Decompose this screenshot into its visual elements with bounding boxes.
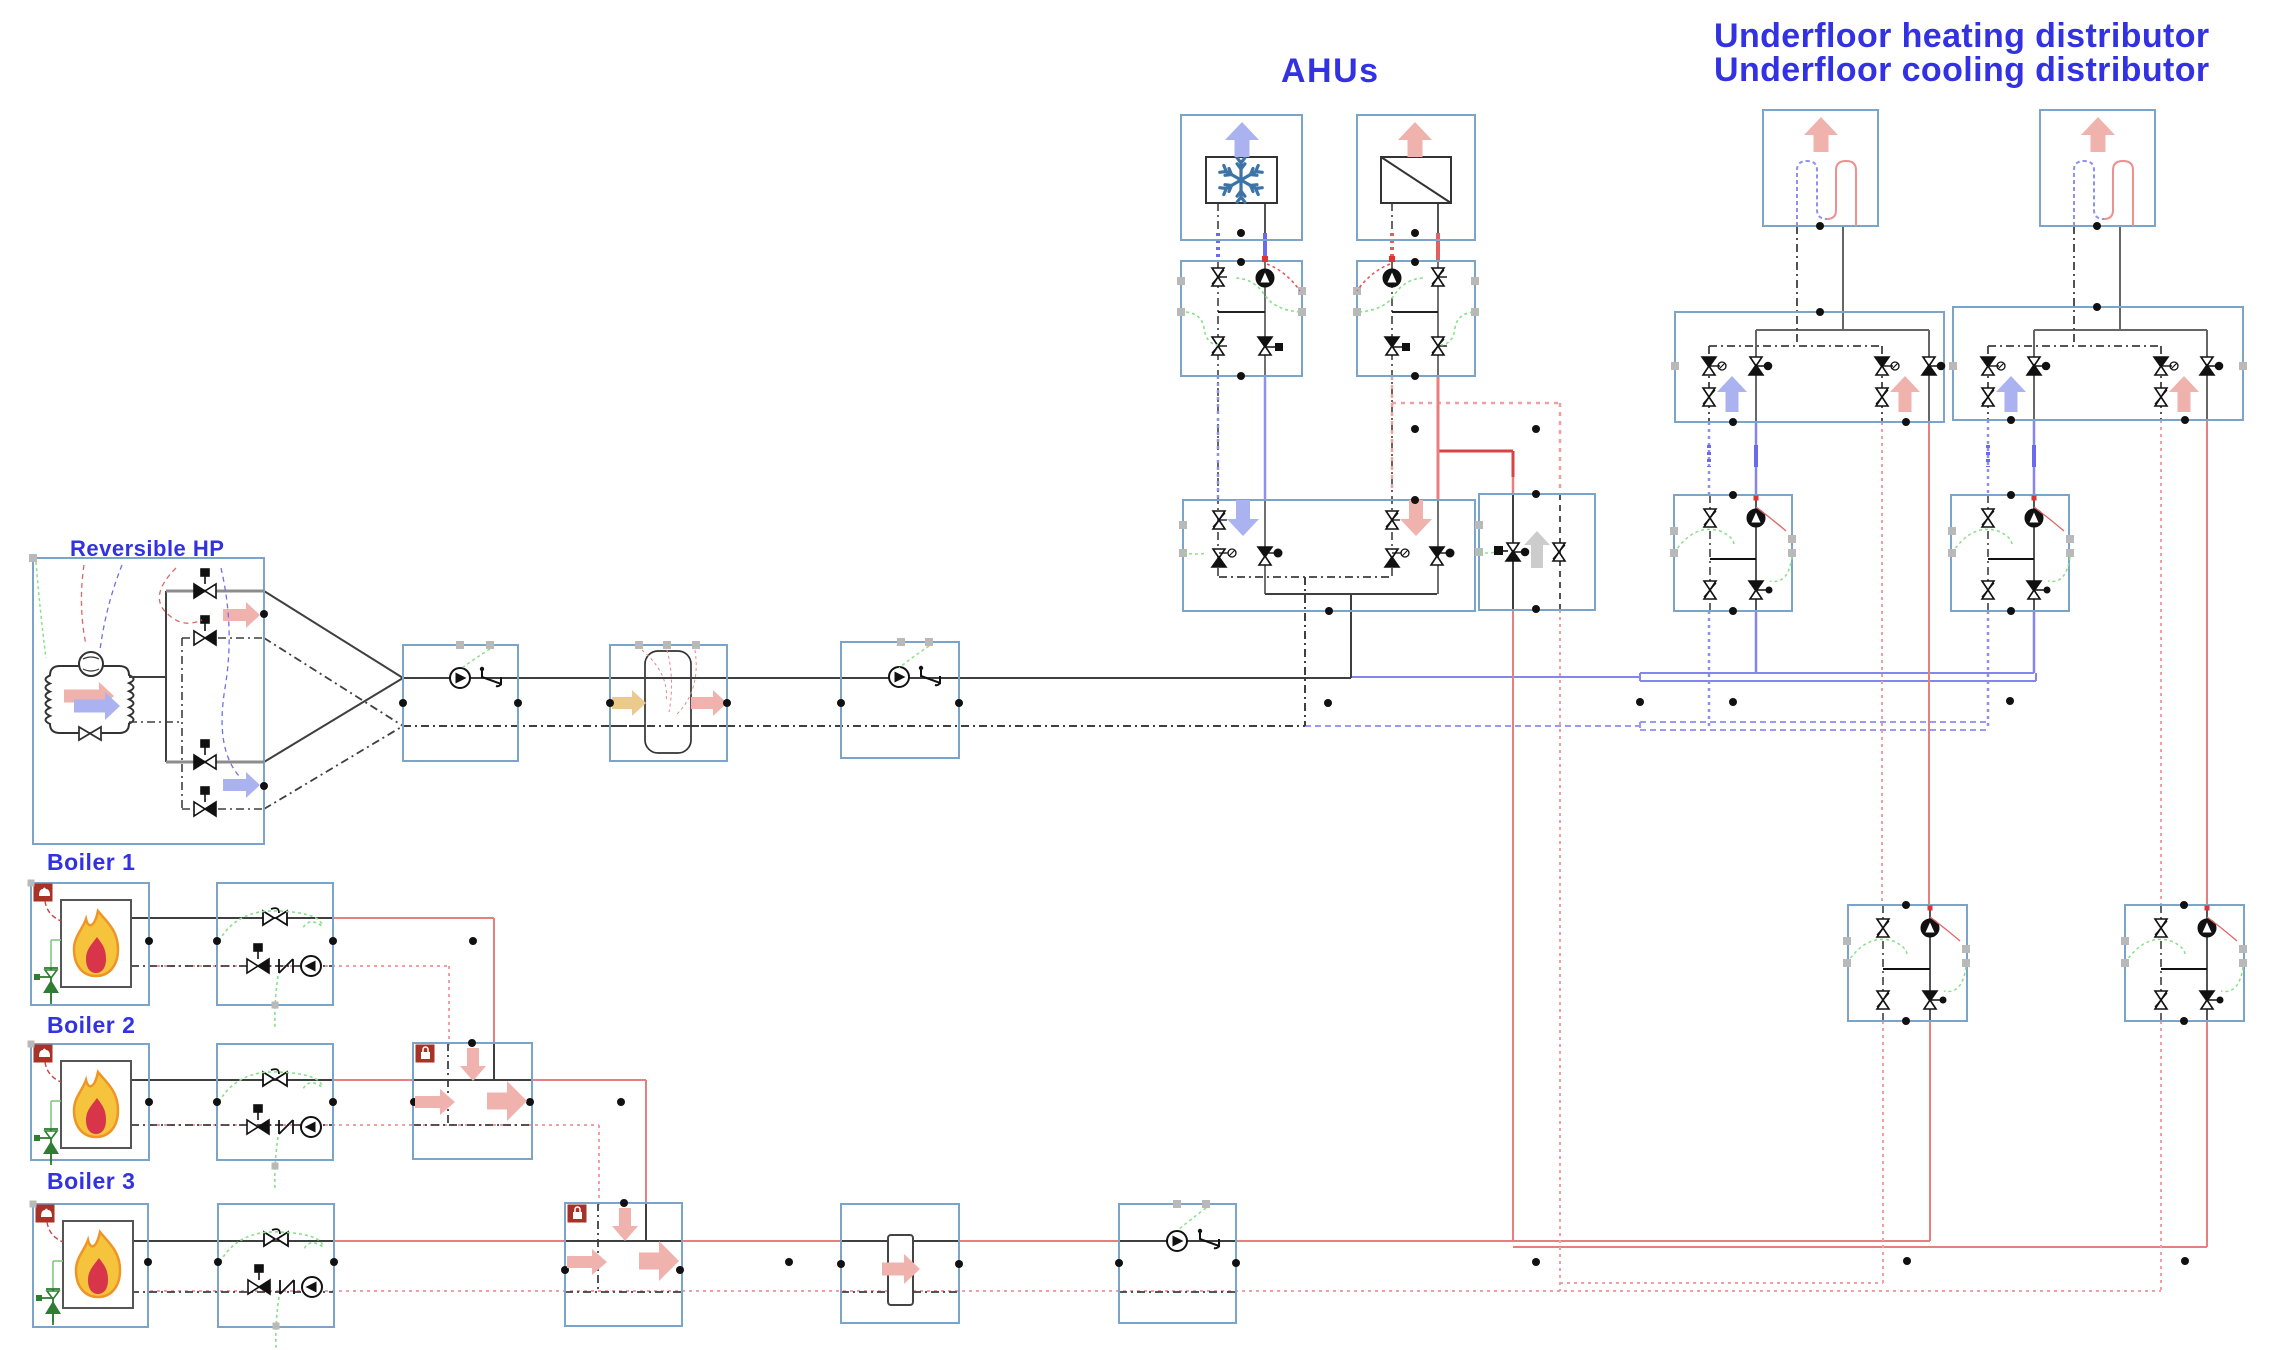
wire: boiler2 return dotted drop x599 bbox=[598, 1125, 600, 1205]
pump P1 (HP primary) bbox=[450, 668, 470, 688]
boiler 1 flame bbox=[74, 911, 118, 976]
wire: header return dotted riser x1883 bbox=[1882, 1021, 1884, 1283]
boiler1 valves green control loop bbox=[219, 911, 322, 941]
box: heat meter bbox=[841, 1204, 959, 1323]
box: boiler 1 valve group bbox=[217, 883, 333, 1005]
wire: UF blue dotted riser x1709 bbox=[1708, 422, 1711, 495]
heat pump L lower valves bbox=[1877, 991, 1889, 1009]
changeover bypass arrow (gray) bbox=[1524, 531, 1550, 568]
wire: header supply red y1239 bbox=[150, 1240, 1930, 1242]
wire: header supply black segments bbox=[131, 1240, 334, 1242]
dist valve return B bbox=[1875, 357, 1889, 375]
box: HP primary pump bbox=[403, 645, 518, 761]
mixer2 outlet arrow (pink) bbox=[487, 1081, 527, 1121]
HP control link blue dashed left bbox=[100, 565, 122, 650]
AHU2 supply air arrow (pink) bbox=[1398, 122, 1432, 157]
wire: heating pump box R internal pipes bbox=[2160, 905, 2162, 1021]
wire: mixer3 internal dashdot x598 bbox=[597, 1203, 599, 1291]
UF pump L balance valve bbox=[1704, 509, 1716, 527]
wire: UF red riser x1929 bbox=[1928, 422, 1930, 905]
boiler 2 inner vessel bbox=[61, 1061, 131, 1148]
box: AHU2 heating coil unit bbox=[1357, 115, 1475, 240]
control link green curves bbox=[1359, 278, 1423, 312]
AHU1 snowflake bbox=[1220, 158, 1262, 202]
wire: header return red dotted y1291 bbox=[150, 1290, 2161, 1292]
boiler 1 control red link bbox=[45, 901, 61, 921]
header pump green link bbox=[1178, 1208, 1206, 1230]
header pump dots bbox=[1115, 1259, 1123, 1267]
dist cooling arrow (blue) bbox=[1717, 376, 1747, 412]
boiler3 valves return slant check bbox=[280, 1280, 294, 1294]
HP heating mode arrow (pink) bbox=[223, 602, 260, 628]
collector return motor valve bbox=[1385, 549, 1399, 567]
box: boiler 2 valve group bbox=[217, 1044, 333, 1160]
mixer3 outlet arrow (pink) bbox=[639, 1241, 679, 1281]
wire: AHU1 cold supply blue overlays bbox=[1263, 233, 1267, 262]
HP expansion valve bbox=[79, 727, 101, 740]
wire: UF pump box L internal pipes bbox=[1709, 495, 1711, 611]
wire: AHU1 cold supply column x1265 bbox=[1264, 203, 1266, 240]
wire: boiler2 supply red bbox=[150, 1079, 646, 1081]
pump (AHU circuit) bbox=[1256, 269, 1274, 287]
wire: HP supply main black y678 bbox=[403, 677, 1351, 679]
UF pump R control green links bbox=[1952, 529, 2012, 553]
wire: boiler1 return black dashdot segment bbox=[131, 965, 333, 967]
wire: distR column x2034 bbox=[2033, 330, 2035, 420]
AHU1 cooling coil bbox=[1206, 157, 1277, 203]
AHU2 heating coil bbox=[1381, 157, 1451, 203]
wire: distL column x1756 bbox=[1755, 330, 1757, 422]
box: underfloor distributor right bbox=[1953, 307, 2243, 420]
wire: AHU2 hot supply column x1438 bbox=[1437, 203, 1439, 240]
boiler 1 status icon (dark red) bbox=[34, 884, 52, 901]
HP compressor bbox=[79, 652, 103, 676]
wire: HP return main dash-dot y726 bbox=[403, 725, 1305, 727]
check valve after P1 bbox=[480, 667, 501, 686]
tank charge arrow (yellow) bbox=[612, 690, 646, 716]
box: boiler 1 unit bbox=[31, 883, 149, 1005]
pump P3 (header) bbox=[1167, 1231, 1187, 1251]
side ports bbox=[1177, 277, 1185, 285]
boiler 3 control red link bbox=[47, 1222, 63, 1242]
wire: small box supply x1513 black bbox=[1512, 494, 1514, 610]
boiler2 valves return pump bbox=[301, 1117, 321, 1137]
wire: AHU2 hot return column x1392 bbox=[1391, 203, 1393, 240]
box: UF circulation pump left bbox=[1674, 495, 1792, 611]
internal crossbar bbox=[1218, 311, 1265, 313]
svg-text:AHUs: AHUs bbox=[1281, 52, 1380, 90]
motor valve pair bbox=[1432, 337, 1444, 355]
changeover green link bbox=[1479, 552, 1495, 553]
wire: floor coil2 return pipe x2074 bbox=[2073, 226, 2075, 346]
mixer2 status icon bbox=[416, 1045, 434, 1062]
dist valve supply A bbox=[2027, 357, 2050, 375]
mixer3 status icon bbox=[568, 1205, 586, 1222]
boiler 2 status icon (dark red) bbox=[34, 1045, 52, 1062]
HP control link red dashed C-curve bbox=[159, 568, 202, 623]
wire: AHU hot return riser x1560 red dotted bbox=[1559, 610, 1561, 1291]
tank sensor curves red bbox=[642, 650, 667, 702]
dist valve return B lower bbox=[2155, 388, 2167, 406]
boiler 2 corner port bbox=[28, 1041, 35, 1048]
boiler2 valves return check valve bbox=[247, 1105, 269, 1134]
boiler 2 control red link bbox=[45, 1062, 61, 1082]
floor coil 1 floor heat arrow (pink) bbox=[1804, 117, 1838, 152]
dist valve supply A bbox=[1749, 357, 1772, 375]
heat pump R control red link bbox=[2207, 917, 2237, 941]
AHU connection dots bbox=[1237, 229, 1245, 237]
wire: AHU2 hot return red overlays bbox=[1390, 233, 1394, 262]
tank line crossings bbox=[611, 677, 726, 679]
svg-text:Underfloor cooling distributor: Underfloor cooling distributor bbox=[1714, 51, 2210, 89]
boiler1 valves return check valve bbox=[247, 944, 269, 973]
svg-text:Underfloor heating distributor: Underfloor heating distributor bbox=[1714, 17, 2210, 55]
wire: heating pump box L internal pipes bbox=[1882, 905, 1884, 1021]
wire: AHU hot supply riser x1513 red bbox=[1512, 451, 1515, 477]
collector return balance valve bbox=[1386, 511, 1398, 529]
internal crossbar bbox=[1392, 311, 1438, 313]
wire: periwinkle dashed return main y726 bbox=[1305, 725, 1640, 727]
collector return balance valve bbox=[1213, 511, 1225, 529]
box: floor coil 1 bbox=[1763, 110, 1878, 226]
wire: periwinkle supply split connectors bbox=[1639, 673, 1641, 681]
wire: distR column x1988 bbox=[1987, 346, 1989, 420]
wire: boiler2 return red dotted bbox=[150, 1124, 599, 1126]
wire: boiler2 supply red drop x646 bbox=[645, 1080, 647, 1206]
wire: header return dotted riser x2161 bbox=[2160, 1021, 2162, 1291]
boiler3 valves return pump bbox=[302, 1277, 322, 1297]
heat pump L balance valve bbox=[1877, 919, 1889, 937]
HP internal dashdot header bbox=[129, 721, 182, 723]
wire: header supply red riser x2207 bbox=[2206, 1021, 2208, 1247]
boiler1 valves return slant check bbox=[279, 959, 293, 973]
boiler 3 corner port bbox=[30, 1201, 37, 1208]
HP port square bbox=[29, 554, 37, 562]
pump box B junction dots bbox=[837, 699, 845, 707]
side ports bbox=[1353, 287, 1361, 295]
box: reversible HP unit bbox=[33, 558, 264, 844]
floor coil 2 floor heat arrow (pink) bbox=[2081, 117, 2115, 152]
heat pump L side ports bbox=[1843, 937, 1851, 945]
box: heating dist pump left bbox=[1848, 905, 1967, 1021]
box: secondary pump bbox=[841, 642, 959, 758]
UF pump L pump bbox=[1747, 509, 1765, 527]
box: AHU1 cooling coil unit bbox=[1181, 115, 1302, 240]
floor coil 2 bottom dot bbox=[2093, 222, 2101, 230]
collector return motor valve bbox=[1212, 549, 1226, 567]
box: underfloor distributor left bbox=[1675, 312, 1944, 422]
boiler2 valves return slant check bbox=[279, 1120, 293, 1134]
dist cooling arrow (blue) bbox=[1996, 376, 2026, 412]
wire: periwinkle dashed return upper y722 bbox=[1640, 721, 1988, 723]
wire: boiler1 return red dotted drop x449 bbox=[448, 966, 450, 1045]
mixer3 inlet-right arrow (pink) bbox=[567, 1249, 607, 1275]
boiler 2 flame bbox=[74, 1072, 118, 1137]
UF pump R balance valve bbox=[1982, 509, 1994, 527]
mixer2 inlet-right arrow (pink) bbox=[415, 1089, 455, 1115]
wire: mixer3 internal vertical x646 bbox=[645, 1204, 647, 1241]
collector side ports bbox=[1179, 521, 1187, 529]
boiler 1 drain green piping bbox=[50, 940, 52, 968]
box: header pump bbox=[1119, 1204, 1236, 1323]
control link green curves bbox=[1236, 278, 1300, 312]
collector bottom dot bbox=[1325, 607, 1333, 615]
boiler 3 drain green piping bbox=[52, 1261, 54, 1289]
box: AHU2 valve group bbox=[1357, 261, 1475, 376]
wire: AHU2 hot supply red overlays bbox=[1436, 233, 1440, 262]
wire: UF red dotted riser x2161 bbox=[2160, 420, 2162, 905]
boiler 2 drain green piping bbox=[50, 1101, 52, 1129]
wire: distR solid header y330 bbox=[2034, 329, 2207, 331]
UF pump R control red link bbox=[2034, 507, 2064, 531]
floor coil 1 serpentine blue dashed bbox=[1797, 161, 1827, 226]
mixer2 top dot bbox=[468, 1039, 476, 1047]
changeover dots bbox=[1532, 490, 1540, 498]
dist valve return B bbox=[2154, 357, 2168, 375]
HP control link blue dashed S-curve bbox=[221, 568, 239, 776]
wire: header supply red second y1245 bbox=[1513, 1246, 2207, 1248]
boiler 1 corner port bbox=[28, 880, 35, 887]
UF pump L control red link bbox=[1756, 507, 1786, 531]
wire: AHU1 cold return column x1218 bbox=[1217, 203, 1219, 240]
boiler 3 inner vessel bbox=[63, 1221, 133, 1308]
wire: boiler1 supply red bbox=[150, 917, 494, 919]
UF pump L lower valves bbox=[1704, 581, 1716, 599]
box: mixer 3 bbox=[565, 1203, 682, 1326]
wire: boiler1 supply black segment bbox=[131, 917, 333, 919]
boiler1 valves gate valve bbox=[263, 908, 287, 925]
pump box A green control link bbox=[462, 649, 490, 668]
header pump top ports bbox=[1173, 1200, 1181, 1208]
boiler3 valves gate valve bbox=[264, 1229, 288, 1246]
floor coil 1 serpentine red bbox=[1827, 161, 1856, 226]
tank top ports bbox=[635, 641, 643, 649]
heat pump R dots bbox=[2180, 901, 2188, 909]
HP refrigerant loop block bbox=[46, 666, 134, 733]
heat pump L pump bbox=[1921, 919, 1939, 937]
heating pump floating dots bbox=[1903, 1257, 1911, 1265]
wire: distL column x1882 bbox=[1881, 346, 1883, 422]
heat pump L control green links bbox=[1847, 939, 1907, 963]
box: changeover valve group bbox=[1479, 494, 1595, 610]
wire: periwinkle supply lower y681 bbox=[1640, 680, 2036, 682]
wire: periwinkle supply upper y673 bbox=[1640, 672, 2034, 674]
pump (AHU circuit) bbox=[1383, 269, 1401, 287]
wire: mixer2 internal dashdot x448 bbox=[447, 1043, 449, 1125]
wire: boiler2 return black dashdot segments bbox=[131, 1124, 333, 1126]
box: AHU collector bbox=[1183, 500, 1475, 611]
boiler3 row dots bbox=[144, 1258, 152, 1266]
wire: header return red dotted y1283 bbox=[1560, 1282, 1883, 1284]
HP control link green dotted bbox=[36, 562, 46, 658]
changeover supply 3-way valve bbox=[1506, 543, 1529, 561]
wire: distL solid header y330 bbox=[1756, 329, 1929, 331]
boiler 3 status icon (dark red) bbox=[36, 1205, 54, 1222]
boiler 3 flame bbox=[76, 1232, 120, 1297]
heat pump L dots bbox=[1902, 901, 1910, 909]
dist heating arrow (pink) bbox=[2169, 376, 2199, 412]
collector supply motor valve bbox=[1258, 547, 1272, 565]
boiler2 row dots bbox=[145, 1098, 153, 1106]
heat pump R balance valve bbox=[2155, 919, 2167, 937]
wire: AHU1 cold return blue dotted overlays bbox=[1216, 233, 1220, 262]
wire: UF red riser x2207 bbox=[2206, 420, 2208, 905]
tank junction dots bbox=[606, 699, 614, 707]
boiler1 row dots bbox=[145, 937, 153, 945]
mixer3 top dot bbox=[620, 1199, 628, 1207]
wire: collector internal solid y594 bbox=[1265, 593, 1437, 595]
UF pump R side ports bbox=[1948, 527, 1956, 535]
HP internal header vertical bbox=[129, 676, 166, 678]
heat meter flow arrow (pink) bbox=[882, 1254, 920, 1284]
box: buffer tank bbox=[610, 645, 727, 761]
AHU valve box bottom dots bbox=[1237, 372, 1245, 380]
svg-text:Boiler 2: Boiler 2 bbox=[47, 1012, 135, 1038]
motor valve pair bbox=[1212, 337, 1224, 355]
boiler3 valves return check valve bbox=[248, 1265, 270, 1294]
box: mixer 2 bbox=[413, 1043, 532, 1159]
wire: floor coil1 supply pipe x1843 bbox=[1842, 226, 1844, 330]
HP condenser flow arrow (pink) bbox=[64, 682, 114, 710]
UF pump L side ports bbox=[1670, 527, 1678, 535]
heat pump R pump bbox=[2198, 919, 2216, 937]
UF pump R pump bbox=[2025, 509, 2043, 527]
box: boiler 3 valve group bbox=[218, 1204, 334, 1327]
pump P2 (secondary) bbox=[889, 667, 909, 687]
pump box B green control link bbox=[899, 646, 929, 668]
wire: distR column x2207 bbox=[2206, 330, 2208, 420]
changeover return valve bbox=[1553, 543, 1565, 561]
UF pump L control green links bbox=[1674, 529, 1734, 553]
dist valve return B lower bbox=[1876, 388, 1888, 406]
boiler2 valves gate valve bbox=[263, 1069, 287, 1086]
wire: HP X-link dashdot top bbox=[264, 638, 403, 726]
wire: distR dashdot header y346 bbox=[1988, 345, 2161, 347]
wire: periwinkle supply main y677 bbox=[1351, 676, 1640, 678]
wire: collector internal dashdot y577 bbox=[1219, 576, 1392, 578]
wire: distR column x2161 bbox=[2160, 346, 2162, 420]
HP junction dots bbox=[260, 610, 268, 618]
dist heating arrow (pink) bbox=[1890, 376, 1920, 412]
wire: distL column x1929 bbox=[1928, 330, 1930, 422]
main line junction dots bbox=[1324, 699, 1332, 707]
wire: floor coil2 supply pipe x2120 bbox=[2119, 226, 2121, 330]
wire: mixer2 internal vertical x494 bbox=[493, 1043, 495, 1080]
wire: boiler2 supply black segments bbox=[131, 1079, 333, 1081]
pump box B top ports bbox=[897, 638, 905, 646]
collector hot supply arrow (pink) bbox=[1400, 500, 1432, 536]
wire: collector dash-dot stub x1305 bbox=[1304, 577, 1306, 726]
svg-text:Boiler 3: Boiler 3 bbox=[47, 1168, 135, 1194]
collector green link bbox=[1183, 553, 1207, 554]
wire: AHU hot return corner y403 red dotted bbox=[1392, 402, 1560, 405]
dist valve return A lower bbox=[1982, 388, 1994, 406]
buffer tank vessel bbox=[645, 651, 691, 753]
distributor dots bbox=[1816, 308, 1824, 316]
check valve after P3 bbox=[1198, 1229, 1219, 1248]
heat meter dots bbox=[837, 1260, 845, 1268]
boiler 1 inner vessel bbox=[61, 900, 131, 987]
HP cooling mode arrow (blue) bbox=[223, 772, 260, 798]
boiler1 valves return pump bbox=[301, 956, 321, 976]
heat pump R control green links bbox=[2125, 939, 2185, 963]
control link red bbox=[1267, 264, 1300, 291]
HP valve cooling supply bbox=[194, 740, 216, 769]
box: heating dist pump right bbox=[2125, 905, 2244, 1021]
wire: UF pump box R internal pipes bbox=[1987, 495, 1989, 611]
dist valve supply B bbox=[1922, 357, 1945, 375]
HP valve heating supply bbox=[194, 569, 216, 598]
balance valve bbox=[1212, 268, 1224, 286]
check valve after P2 bbox=[919, 666, 940, 685]
floor coil 2 serpentine blue dashed bbox=[2074, 161, 2104, 226]
wire: UF blue riser x1756 bbox=[1755, 422, 1758, 495]
UF pump R lower valves bbox=[1982, 581, 1994, 599]
HP valve cooling return bbox=[194, 616, 216, 645]
tank discharge arrow (pink) bbox=[691, 690, 727, 716]
wire: AHU hot supply corner y451 bbox=[1438, 450, 1513, 453]
floor coil 1 bottom dot bbox=[1816, 222, 1824, 230]
HP valve heating return bbox=[194, 787, 216, 816]
wire: distL column x1709 bbox=[1708, 346, 1710, 422]
HP control link red dashed left bbox=[81, 565, 86, 645]
box: AHU1 valve group bbox=[1181, 261, 1302, 376]
heat pump L control red link bbox=[1930, 917, 1960, 941]
wire: boiler1 return red dotted bbox=[150, 965, 449, 967]
control link red bbox=[1357, 264, 1390, 291]
box: boiler 3 unit bbox=[33, 1204, 148, 1327]
boiler3 valves green control loop bbox=[220, 1232, 323, 1262]
wire: boiler1 supply red drop x494 bbox=[493, 918, 495, 1045]
box: boiler 2 unit bbox=[31, 1044, 149, 1160]
wire: HP X-link dashdot bottom bbox=[264, 726, 403, 809]
heat pump R side ports bbox=[2121, 937, 2129, 945]
svg-text:Boiler 1: Boiler 1 bbox=[47, 849, 135, 875]
UF pump R dots bbox=[2007, 491, 2015, 499]
wire: periwinkle dashed return lower y730 bbox=[1640, 729, 1988, 731]
pump box A junction dots bbox=[399, 699, 407, 707]
wire: header supply red riser x1930 bbox=[1929, 1021, 1931, 1241]
box: floor coil 2 bbox=[2040, 110, 2155, 226]
collector cold supply arrow (blue) bbox=[1227, 500, 1259, 536]
changeover side ports bbox=[1475, 521, 1483, 529]
dist valve return A bbox=[1702, 357, 1716, 375]
wire: UF blue riser x2034 bbox=[2033, 420, 2036, 495]
UF pump L dots bbox=[1729, 491, 1737, 499]
dist valve return A bbox=[1981, 357, 1995, 375]
heat meter body bbox=[888, 1235, 913, 1305]
mixer3 inlet-down arrow (pink) bbox=[612, 1208, 638, 1241]
wire: UF red dotted riser x1882 bbox=[1881, 422, 1883, 905]
balance valve bbox=[1432, 268, 1444, 286]
mixer2 inlet-down arrow (pink) bbox=[460, 1048, 486, 1081]
wire: UF blue dotted riser x1988 bbox=[1987, 420, 1990, 495]
wire: small box return x1560 black dashed bbox=[1559, 494, 1561, 610]
wire: collector solid stub x1352 bbox=[1350, 594, 1352, 678]
boiler2 valves green control loop bbox=[219, 1072, 322, 1102]
wire: distL dashdot header y346 bbox=[1709, 345, 1882, 347]
box: UF circulation pump right bbox=[1951, 495, 2069, 611]
collector supply motor valve bbox=[1430, 547, 1444, 565]
HP evaporator flow arrow (blue) bbox=[74, 692, 120, 720]
heat pump R lower valves bbox=[2155, 991, 2167, 1009]
pump box A top ports bbox=[456, 641, 464, 649]
dist valve supply B bbox=[2200, 357, 2223, 375]
distributor side ports bbox=[1671, 362, 1679, 370]
wire: HP X-link solid bottom bbox=[264, 678, 403, 762]
wire: floor coil1 return pipe x1797 bbox=[1796, 226, 1798, 346]
AHU1 supply air arrow (blue) bbox=[1225, 122, 1259, 157]
